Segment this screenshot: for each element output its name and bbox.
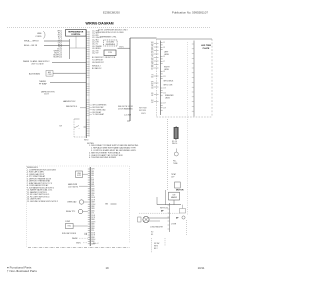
right mid wire labels: [92, 57, 105, 64]
ice maker dashed cutline: [139, 212, 180, 214]
svg-text:GN/YL: GN/YL: [76, 242, 81, 244]
svg-text:J4-2 GY: J4-2 GY: [92, 53, 99, 55]
svg-text:RUN CAP 15 MFD: RUN CAP 15 MFD: [62, 232, 77, 235]
right cabinet dotted edge: [187, 42, 189, 215]
svg-text:WH AUX 2: WH AUX 2: [92, 64, 101, 67]
svg-text:RD: RD: [151, 49, 154, 51]
svg-text:16BR: 16BR: [91, 202, 96, 204]
svg-text:RD: RD: [151, 232, 154, 234]
line filter box: [76, 171, 83, 177]
trim plate pin ticks: [161, 43, 163, 111]
svg-text:FRONT PCB: FRONT PCB: [105, 57, 116, 59]
svg-text:J9: J9: [163, 71, 165, 73]
LED lamp symbols column: [154, 44, 159, 102]
door harness bus: [129, 38, 131, 121]
svg-text:28BU: 28BU: [91, 228, 95, 230]
svg-text:15. GROUND SCREW GN/YL NOTE 2: 15. GROUND SCREW GN/YL NOTE 2: [27, 201, 58, 203]
svg-text:7OR: 7OR: [91, 182, 95, 184]
svg-text:FF EVAP: FF EVAP: [39, 82, 47, 85]
ice maker module box: [175, 182, 181, 188]
control board edge bus: [85, 30, 87, 139]
svg-text:511: 511: [151, 95, 154, 97]
svg-text:RELAY PTC: RELAY PTC: [66, 210, 76, 213]
ground wire: [118, 47, 131, 49]
door switch column: [151, 238, 153, 253]
ice maker bottom wire: [157, 204, 181, 206]
svg-text:RD: RD: [151, 93, 154, 95]
svg-text:UI BOARD: UI BOARD: [106, 41, 115, 44]
wiring legend text block: [27, 167, 58, 203]
svg-text:WIRING DIAGRAM: WIRING DIAGRAM: [86, 21, 114, 25]
svg-text:13YL: 13YL: [91, 195, 95, 197]
svg-text:+: +: [79, 128, 80, 130]
trim plate connector strip: [160, 41, 162, 116]
svg-text:115 V 60 HZ: 115 V 60 HZ: [68, 187, 79, 189]
svg-text:20BU: 20BU: [91, 210, 95, 212]
svg-text:GN DEFROST: GN DEFROST: [92, 62, 105, 64]
svg-text:J17: J17: [163, 103, 166, 105]
svg-text:CONTROL: CONTROL: [71, 34, 81, 36]
svg-text:LEDS: LEDS: [165, 97, 170, 99]
control board inner bus: [88, 31, 90, 137]
svg-text:32BR: 32BR: [91, 237, 96, 239]
svg-text:GN: GN: [151, 60, 153, 62]
svg-text:504: 504: [151, 58, 154, 60]
svg-text:BU FAN DC: BU FAN DC: [92, 67, 102, 70]
condenser fan terminal box: [138, 217, 141, 222]
svg-text:REFRIGERATOR: REFRIGERATOR: [68, 30, 84, 33]
svg-text:31OR: 31OR: [91, 235, 96, 237]
freezer light lamp: [182, 216, 185, 219]
svg-text:27RD: 27RD: [91, 226, 96, 228]
svg-text:WH 1 CVR: WH 1 CVR: [164, 84, 173, 86]
svg-text:2BK: 2BK: [91, 171, 94, 173]
water valve harness dashed riser: [167, 119, 169, 190]
svg-text:BU: BU: [151, 53, 153, 55]
svg-text:LINE VOLTAGE: LINE VOLTAGE: [31, 62, 45, 65]
svg-text:WH-A — WH 18: WH-A — WH 18: [24, 40, 39, 43]
hot wire: [44, 45, 70, 47]
front pcb box: [104, 50, 116, 56]
svg-text:19: 19: [105, 266, 109, 270]
line cord junction riser: [69, 39, 71, 59]
svg-text:17WH: 17WH: [91, 204, 95, 206]
condenser fan wires: [149, 217, 169, 219]
svg-text:COMP: COMP: [65, 221, 71, 223]
svg-text:30GN: 30GN: [91, 232, 95, 234]
svg-text:18BK: 18BK: [91, 206, 95, 208]
svg-text:YL DEF HEAT: YL DEF HEAT: [93, 113, 105, 116]
svg-text:HARVEST FIX: HARVEST FIX: [63, 100, 76, 103]
control board right pin labels: [92, 31, 103, 55]
water inlet port circle: [174, 152, 178, 156]
svg-text:506: 506: [151, 65, 154, 67]
svg-text:11RD: 11RD: [91, 191, 96, 193]
power harness ladder: [89, 167, 91, 246]
svg-text:LENS: LENS: [164, 69, 169, 71]
svg-text:SW: SW: [59, 126, 62, 128]
svg-text:600 W: 600 W: [44, 94, 49, 96]
dispenser control dashed box: [104, 40, 118, 46]
svg-text:503: 503: [151, 55, 154, 57]
water valve coil body: [174, 127, 178, 138]
svg-text:6. TIGHTEN GROUND SCREW: 6. TIGHTEN GROUND SCREW: [89, 157, 116, 159]
svg-text:1WH: 1WH: [91, 169, 94, 171]
ice maker body box: [169, 192, 180, 200]
svg-text:E23BC68JS0: E23BC68JS0: [103, 11, 120, 15]
svg-text:YL: YL: [152, 56, 154, 58]
defrost thermostat dotted outline: [73, 119, 75, 137]
svg-text:BU: BU: [151, 100, 153, 102]
harness top wire to trim plate: [130, 37, 157, 39]
svg-text:22GN: 22GN: [91, 215, 95, 217]
svg-text:BK: BK: [151, 234, 154, 236]
svg-text:33WH: 33WH: [91, 239, 95, 241]
svg-text:PCB: PCB: [108, 52, 112, 54]
svg-text:10/11: 10/11: [198, 266, 205, 270]
control board left pin labels: [53, 30, 62, 58]
svg-text:RD/WH-14: RD/WH-14: [53, 56, 62, 58]
svg-text:OR: OR: [151, 63, 154, 65]
svg-text:FLTR: FLTR: [77, 175, 82, 177]
svg-text:BR: BR: [151, 67, 154, 69]
svg-text:21YL: 21YL: [91, 213, 95, 215]
water tube fitting box: [180, 209, 186, 214]
trim plate right connector bus: [193, 41, 195, 117]
control board connector pin ticks: [86, 32, 89, 135]
svg-text:SEE NOTE 4: SEE NOTE 4: [66, 106, 77, 108]
svg-text:† Non-Illustrated Parts: † Non-Illustrated Parts: [7, 269, 37, 273]
svg-text:MAKER: MAKER: [171, 196, 178, 199]
svg-text:WH 1 BRLS: WH 1 BRLS: [164, 80, 174, 82]
svg-text:24BR: 24BR: [91, 219, 96, 221]
svg-text:DR SW: DR SW: [154, 243, 160, 245]
svg-text:508: 508: [151, 77, 154, 79]
svg-text:WH: WH: [151, 42, 154, 44]
svg-text:BK: BK: [151, 86, 153, 88]
board connector outline stub: [75, 36, 77, 48]
svg-text:8BR: 8BR: [91, 184, 95, 186]
harness drop line: [169, 203, 171, 232]
svg-text:CON: CON: [48, 74, 52, 76]
overload protector: [79, 200, 83, 204]
svg-text:512: 512: [151, 102, 154, 104]
svg-text:J1: J1: [163, 42, 165, 44]
neutral wire: [44, 40, 70, 42]
svg-text:5YL: 5YL: [91, 177, 94, 179]
thermistor wire: [50, 82, 86, 84]
svg-text:WH-8: WH-8: [84, 140, 88, 142]
trim plate pin labels: [163, 42, 166, 109]
svg-text:19RD: 19RD: [91, 208, 96, 210]
svg-text:509: 509: [151, 84, 154, 86]
svg-text:LINE: LINE: [77, 173, 81, 175]
svg-text:AUX: AUX: [48, 71, 52, 74]
svg-text:4BU: 4BU: [91, 175, 94, 177]
svg-text:BK-A — BK 18: BK-A — BK 18: [24, 44, 38, 47]
svg-text:J19: J19: [163, 107, 166, 109]
right mid stub wires: [93, 105, 108, 117]
svg-text:GN: GN: [105, 204, 108, 206]
svg-text:DOOR HARNESS: DOOR HARNESS: [118, 107, 133, 110]
svg-text:J11: J11: [163, 76, 166, 78]
svg-text:9WH: 9WH: [91, 186, 94, 188]
svg-text:505: 505: [151, 62, 154, 64]
header dotted rule: [7, 27, 211, 29]
svg-text:WH/BK: WH/BK: [72, 238, 78, 240]
svg-text:15OR: 15OR: [91, 199, 96, 201]
line cord bracket: [43, 32, 45, 39]
svg-text:26BK: 26BK: [91, 224, 95, 226]
svg-text:TN: TN: [151, 75, 153, 77]
svg-text:510: 510: [151, 88, 154, 90]
svg-text:PLATE: PLATE: [203, 47, 210, 50]
svg-text:J13: J13: [163, 88, 166, 90]
svg-text:LED TRIM: LED TRIM: [201, 45, 211, 47]
svg-text:LENS: LENS: [164, 54, 169, 56]
svg-text:14GN: 14GN: [91, 197, 95, 199]
svg-text:12BU: 12BU: [91, 193, 95, 195]
svg-text:SHOWN WITH DOOR CLOSED: SHOWN WITH DOOR CLOSED: [98, 32, 124, 34]
svg-text:6GN: 6GN: [91, 180, 94, 182]
svg-text:500: 500: [151, 44, 154, 46]
svg-text:LT WH: LT WH: [171, 223, 177, 225]
svg-text:WH—2: WH—2: [93, 243, 98, 245]
LED trim plate enclosure: [157, 38, 213, 40]
svg-text:Publication No. 5995581107: Publication No. 5995581107: [172, 11, 208, 15]
svg-text:4P: 4P: [176, 216, 179, 219]
svg-text:AUX BOARD: AUX BOARD: [29, 73, 41, 76]
ice maker riser: [165, 190, 167, 205]
svg-text:J3: J3: [163, 47, 165, 49]
svg-text:COND FAN MTR: COND FAN MTR: [150, 226, 164, 229]
svg-text:29YL: 29YL: [91, 230, 95, 232]
ice maker drop wire: [173, 200, 175, 205]
ladder pin labels: [91, 169, 96, 246]
svg-text:4P: 4P: [161, 210, 164, 213]
svg-text:J5: J5: [163, 56, 165, 58]
svg-text:WH 16: WH 16: [172, 143, 177, 145]
svg-text:GN: GN: [98, 48, 101, 50]
svg-text:BK: BK: [151, 46, 153, 48]
svg-text:501: 501: [151, 48, 154, 50]
svg-text:502: 502: [151, 51, 154, 53]
svg-text:GN/YL: GN/YL: [141, 113, 146, 115]
svg-text:10 F: 10 F: [171, 177, 174, 179]
svg-text:3RD: 3RD: [91, 173, 95, 175]
aux wire: [53, 72, 86, 74]
svg-text:TUBE: TUBE: [173, 163, 178, 165]
freezer light riser: [186, 220, 188, 235]
svg-text:RSC: RSC: [68, 226, 72, 228]
svg-text:WH: WH: [151, 82, 154, 84]
svg-text:WH PLUG: WH PLUG: [160, 208, 169, 210]
svg-text:RETURN: RETURN: [139, 110, 147, 112]
svg-text:WH 3: WH 3: [154, 245, 158, 247]
svg-text:OVERLOAD: OVERLOAD: [67, 201, 77, 204]
svg-text:BK 2: BK 2: [154, 248, 158, 250]
notes text block: [87, 143, 139, 159]
svg-text:CORD: CORD: [35, 36, 42, 38]
svg-text:10BK: 10BK: [91, 188, 95, 190]
aux connector block: [46, 71, 53, 77]
svg-text:23OR: 23OR: [91, 217, 96, 219]
svg-text:J7: J7: [163, 61, 165, 63]
svg-text:25WH: 25WH: [91, 221, 95, 223]
svg-text:507: 507: [151, 69, 154, 71]
condenser fan motor: [143, 216, 149, 222]
start relay: [78, 209, 82, 213]
svg-text:DISPENSER CTRL: DISPENSER CTRL: [100, 37, 116, 39]
refrigerator control board title box: [66, 30, 87, 37]
power wire: [52, 62, 86, 64]
cabinet bottom dash-dot rule: [28, 247, 130, 249]
svg-text:MOTOR: MOTOR: [176, 190, 184, 192]
svg-text:J-15 WH: J-15 WH: [124, 114, 132, 116]
machine compartment dotted boundary: [27, 165, 130, 167]
